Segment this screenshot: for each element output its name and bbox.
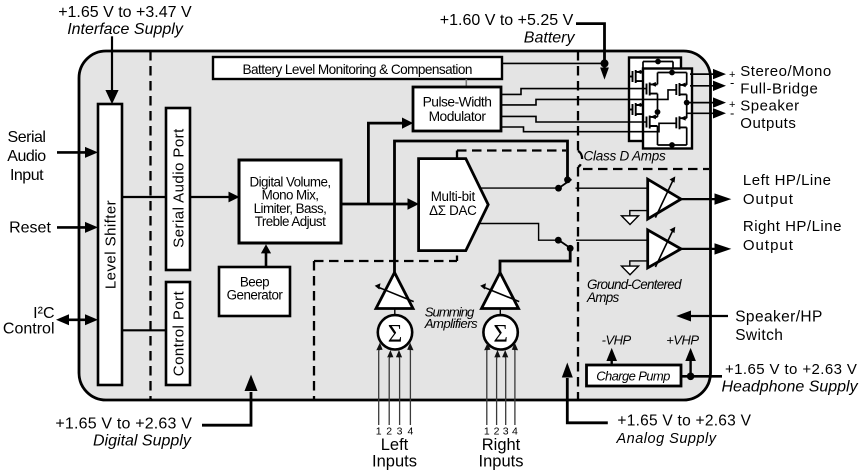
wire: PWM output 4 to gate M4 [501, 123, 676, 131]
block: Beep Generator [219, 267, 290, 316]
svg-text:Amps: Amps [586, 290, 620, 305]
svg-text:Serial Audio Port: Serial Audio Port [171, 128, 188, 248]
dashed boundary: digital domain top [457, 149, 566, 151]
wire: right summing amp output to switch 2 (thick) [500, 251, 570, 273]
wire: branch up to PWM (arrow) [368, 118, 413, 205]
svg-text:Reset: Reset [9, 220, 51, 237]
wire: speaker output arrow 1 [690, 69, 726, 79]
svg-text:-: - [730, 106, 734, 121]
transistor B1 [629, 70, 643, 83]
svg-text:Multi-bit: Multi-bit [431, 189, 476, 204]
wire: left summing amp output to switch 1 (thick) [395, 141, 568, 273]
block: Pulse-Width Modulator [413, 87, 501, 131]
svg-text:Treble Adjust: Treble Adjust [255, 214, 326, 229]
svg-text:Battery: Battery [524, 30, 576, 47]
transistor B2 [629, 103, 643, 116]
dashed boundary: battery domain vertical [577, 51, 579, 151]
block: Multi-bit Delta-Sigma DAC [419, 159, 489, 251]
svg-text:Headphone Supply: Headphone Supply [722, 379, 859, 396]
wire: speaker output arrow 2 [690, 81, 726, 91]
svg-text:I²C: I²C [33, 305, 54, 322]
transistor M2 [676, 83, 686, 96]
svg-text:Left HP/Line: Left HP/Line [743, 172, 832, 189]
switch 1 (left HP source select) [555, 176, 648, 191]
dashed boundary: digital domain right (behind DAC) [456, 151, 458, 262]
svg-text:+1.65 V to +3.47 V: +1.65 V to +3.47 V [58, 4, 192, 21]
svg-text:Inputs: Inputs [479, 452, 524, 470]
back bridge column wires [642, 81, 644, 140]
wire: PWM output 3 to gate M3 [501, 116, 647, 122]
svg-text:Σ: Σ [493, 321, 508, 348]
svg-text:Interface Supply: Interface Supply [67, 21, 184, 38]
svg-text:+1.65 V to +2.63 V: +1.65 V to +2.63 V [617, 412, 751, 429]
svg-text:Switch: Switch [735, 327, 783, 344]
wire: PWM output 1 to gate M1 [501, 89, 647, 95]
transistor M1 [647, 83, 658, 96]
right inputs fan (4 lines with arrows) [487, 348, 515, 425]
wire: left HP output arrow [681, 193, 731, 204]
svg-text:Digital Supply: Digital Supply [93, 433, 192, 450]
dashed boundary: interface/digital domain [149, 51, 151, 400]
svg-text:Audio: Audio [7, 148, 46, 165]
wire: battery monitor to PWM [465, 79, 467, 87]
wire: speaker output arrow 3 [687, 97, 726, 107]
front bridge top rail [658, 70, 687, 85]
svg-text:Class D Amps: Class D Amps [584, 149, 667, 164]
wire: analog supply arrow [562, 363, 608, 423]
left headphone amp U-L (variable gain) [648, 176, 681, 219]
label: right inputs numbers [484, 426, 518, 438]
left inputs fan (4 lines with arrows) [379, 348, 411, 425]
svg-text:Left: Left [381, 436, 409, 454]
svg-text:Σ: Σ [388, 321, 403, 348]
svg-text:Control: Control [3, 320, 55, 337]
wire: serial audio input arrow [57, 147, 98, 158]
svg-text:+1.60 V to +5.25 V: +1.60 V to +5.25 V [440, 12, 574, 29]
summing amp left: variable gain triangle [375, 273, 414, 316]
dashed boundary: analog domain top [314, 260, 457, 262]
ground-centered symbol (left amp) [622, 211, 648, 225]
switch 2 (right HP source select) [555, 237, 648, 252]
summing amp right: variable gain triangle [480, 273, 519, 316]
svg-text:Output: Output [743, 237, 794, 254]
label: left inputs numbers [376, 426, 414, 438]
svg-text:4: 4 [407, 426, 413, 438]
dashed boundary: analog domain left [313, 261, 315, 399]
class D output stage: back bridge box [629, 58, 681, 142]
wire: charge pump +VHP arrow and headphone supply feed [681, 348, 722, 380]
svg-text:Serial: Serial [8, 129, 46, 146]
svg-text:Inputs: Inputs [372, 452, 417, 470]
wire: right HP output arrow [681, 243, 731, 254]
block: Charge Pump [587, 365, 682, 386]
wire: digital supply arrow [202, 375, 258, 426]
svg-text:-VHP: -VHP [602, 333, 632, 348]
svg-text:Right HP/Line: Right HP/Line [743, 218, 842, 235]
svg-text:Charge Pump: Charge Pump [596, 368, 670, 383]
wire: beep generator to digital volume (arrow up) [261, 244, 271, 267]
wire: DAC upper output to switch 1 [481, 187, 556, 189]
transistor M3 [647, 116, 658, 129]
wire: reset input arrow [57, 222, 98, 233]
class D output stage: front bridge box [643, 69, 692, 149]
svg-text:Stereo/Mono: Stereo/Mono [740, 63, 831, 80]
svg-text:ΔΣ DAC: ΔΣ DAC [429, 203, 477, 218]
wire: charge pump -VHP arrow [606, 348, 617, 365]
wire: speaker output arrow 4 [687, 108, 726, 118]
svg-text:Pulse-Width: Pulse-Width [423, 94, 492, 109]
wire: serial audio port to digital volume (arrow) [190, 192, 240, 203]
summing amp left: sigma circle [378, 315, 412, 349]
svg-text:-: - [730, 75, 734, 90]
svg-text:Amplifiers: Amplifiers [424, 316, 478, 331]
right headphone amp U-R (variable gain) [648, 227, 681, 268]
front bridge bottom rail [658, 126, 687, 148]
ground-centered symbol (right amp) [622, 261, 648, 275]
wire: I2C control double arrow [56, 314, 98, 325]
transistor M4 [676, 116, 686, 129]
svg-text:+1.65 V to +2.63 V: +1.65 V to +2.63 V [725, 361, 857, 378]
svg-text:Full-Bridge: Full-Bridge [740, 80, 818, 97]
svg-text:+1.65 V to +2.63 V: +1.65 V to +2.63 V [55, 416, 192, 433]
svg-text:Input: Input [10, 167, 44, 184]
dashed boundary: class D amps bottom [583, 168, 709, 170]
svg-text:Right: Right [482, 436, 521, 454]
summing amp right: sigma circle [483, 315, 517, 349]
wire: interface supply arrow [105, 36, 118, 104]
chip body [79, 51, 711, 400]
svg-text:Outputs: Outputs [740, 115, 796, 132]
svg-text:Battery Level Monitoring & Com: Battery Level Monitoring & Compensation [242, 62, 471, 77]
block: Battery Level Monitoring & Compensation [213, 57, 502, 79]
wire: level shifter to control port [122, 329, 166, 331]
front bridge mid columns [655, 94, 690, 119]
wire: PWM output 2 to gate M2 [501, 90, 676, 105]
svg-text:Generator: Generator [227, 287, 284, 302]
svg-text:Speaker/HP: Speaker/HP [735, 308, 823, 325]
svg-text:Speaker: Speaker [740, 98, 799, 115]
wire: battery supply entry [502, 24, 609, 80]
svg-text:Level Shifter: Level Shifter [103, 200, 120, 289]
block: Serial Audio Port [166, 108, 190, 270]
wire: digital volume to DAC (thick, arrow) [341, 198, 419, 209]
svg-text:Modulator: Modulator [429, 109, 487, 124]
svg-text:+VHP: +VHP [666, 333, 699, 348]
block: Control Port [166, 282, 190, 385]
block: Digital Volume / Mono Mix / Limiter, Bass / Treble Adjust [239, 160, 341, 243]
svg-text:Control Port: Control Port [171, 290, 188, 376]
block: Level Shifter [98, 104, 122, 385]
svg-text:Output: Output [743, 191, 794, 208]
wire: level shifter to serial audio port [122, 196, 166, 198]
wire: speaker/HP switch pointer arrow [676, 311, 728, 322]
back bridge top rail [643, 59, 673, 72]
wire: DAC lower output to switch 2 [479, 224, 555, 241]
svg-text:Analog Supply: Analog Supply [616, 431, 717, 447]
